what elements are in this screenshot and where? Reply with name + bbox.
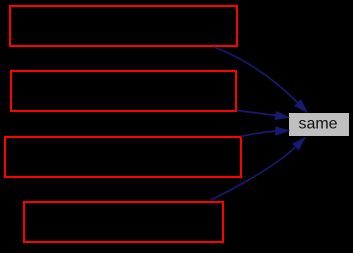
edge 4: box4 -> same — [210, 138, 305, 201]
node box 2 (red border) — [11, 71, 236, 111]
node box 1 (top, red border) — [10, 6, 237, 46]
edge 3: box3 -> same — [241, 127, 289, 137]
edge 2: box2 -> same — [237, 111, 289, 120]
node box 3 (red border) — [5, 137, 241, 177]
node same (gray box) — [289, 113, 349, 136]
svg-text:same: same — [298, 116, 337, 133]
node box 4 (bottom, red border) — [24, 202, 223, 242]
edge 1: box1 -> same — [214, 47, 307, 112]
